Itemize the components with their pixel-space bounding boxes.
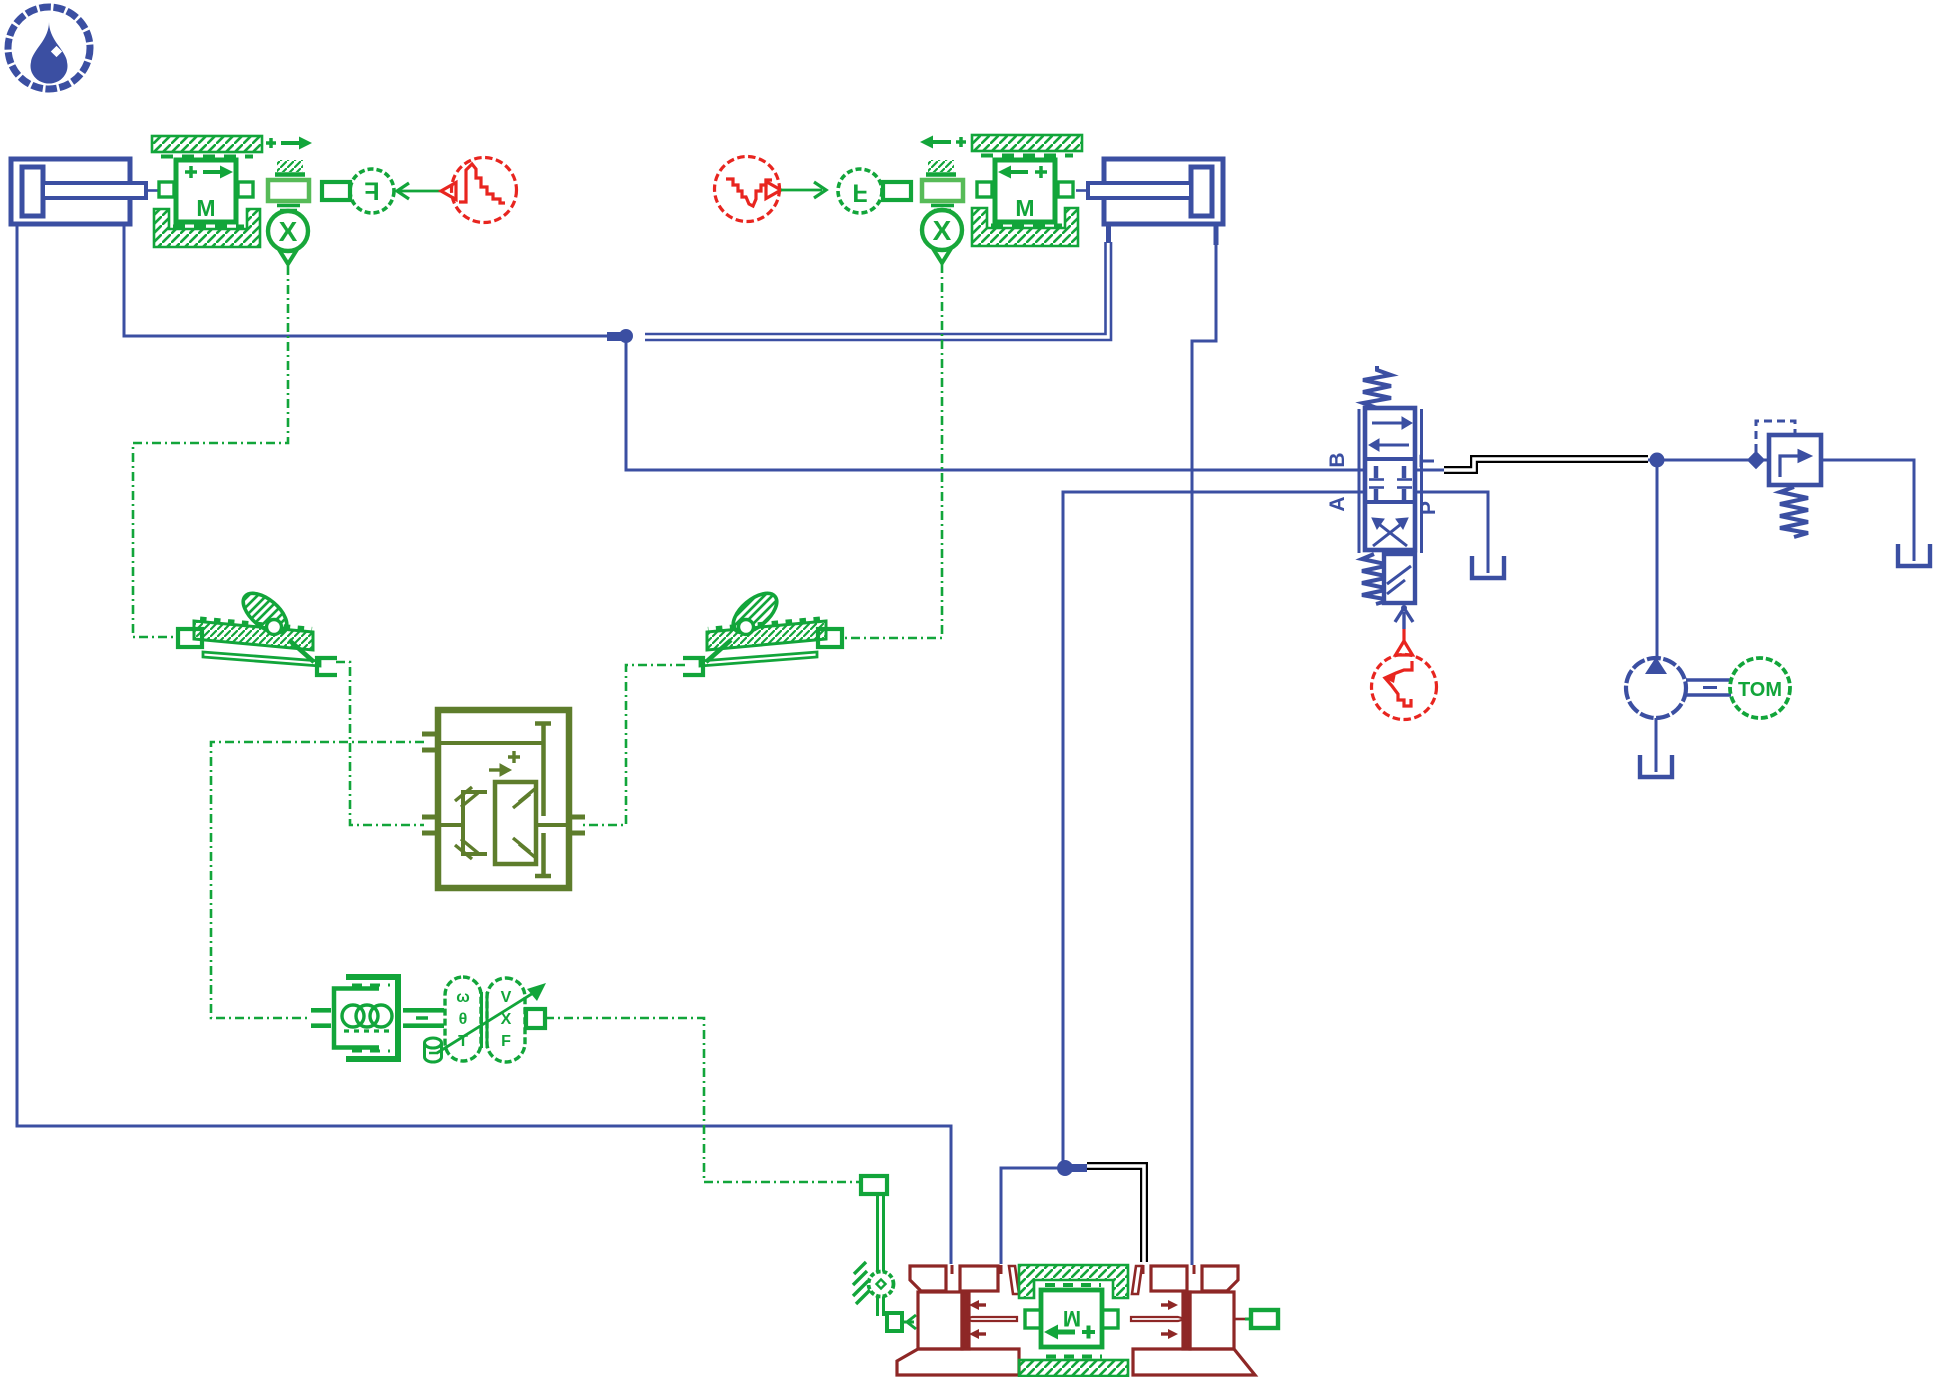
lower wall bbox=[154, 209, 260, 247]
bottom lever with pivot bbox=[853, 1176, 916, 1331]
left mass block M1 with walls bbox=[152, 136, 312, 247]
signal wire: right rack lever to gearbox right port bbox=[583, 665, 685, 825]
signal wire: gearbox upper-left port to rotary spring input bbox=[211, 742, 424, 1018]
wire: relief out to tank bbox=[1821, 460, 1914, 561]
right port box of bottom valve bbox=[1245, 1318, 1252, 1321]
wire: junction down to valve port B bbox=[626, 336, 1365, 470]
svg-text:F: F bbox=[852, 179, 867, 207]
upper wall bbox=[152, 136, 262, 152]
junction node bottom bbox=[1057, 1160, 1073, 1176]
side rails bbox=[1358, 409, 1361, 553]
command arrow up bbox=[1402, 612, 1405, 629]
right rack and pinion sensor linkage bbox=[683, 572, 848, 675]
svg-text:F: F bbox=[501, 1033, 511, 1050]
right force input F2 bbox=[838, 169, 882, 213]
signal wire: right X sensor to right rack input bbox=[845, 264, 942, 638]
svg-text:M: M bbox=[196, 195, 215, 221]
bottom position crossed arrows bbox=[1373, 521, 1405, 546]
svg-text:X: X bbox=[933, 215, 952, 246]
svg-text:T: T bbox=[458, 1033, 468, 1050]
top position arrows bbox=[1372, 422, 1404, 425]
bottom servo spool valve (jack control) bbox=[897, 1265, 1255, 1375]
wire: junction down to pump bbox=[1656, 460, 1659, 660]
signal wire: left rack lever to gearbox lower-left port bbox=[336, 662, 424, 825]
right mass block M2 with walls bbox=[920, 135, 1082, 246]
body bbox=[1365, 408, 1415, 550]
svg-text:T: T bbox=[1416, 454, 1439, 467]
junction node at x=626 bbox=[619, 329, 633, 343]
right shaft link bbox=[883, 182, 911, 200]
svg-text:X: X bbox=[279, 216, 298, 247]
wire: valve P to tank bbox=[1415, 492, 1488, 573]
signal wire: transformer output to bottom lever input bbox=[545, 1018, 860, 1182]
left viscous friction element bbox=[268, 160, 309, 211]
solenoid box bbox=[1384, 554, 1415, 603]
tank below pump bbox=[1640, 755, 1672, 777]
svg-text:M: M bbox=[1063, 1306, 1081, 1331]
bottom spring bbox=[1362, 554, 1390, 604]
green wall top of bottom valve bbox=[1019, 1265, 1128, 1298]
pilot tap diamond bbox=[1747, 451, 1765, 469]
mass block inside bottom valve bbox=[1025, 1290, 1118, 1347]
valve port labels bbox=[1326, 452, 1440, 515]
wire: left cylinder rod port to bottom valve port 1 (blue) bbox=[17, 226, 951, 1264]
servo valve U1 bbox=[1359, 366, 1422, 629]
velocity arrow <+ bbox=[956, 137, 966, 147]
wire: right cylinder left port stub bbox=[1106, 224, 1111, 243]
right viscous friction element bbox=[922, 160, 963, 211]
mass body bbox=[977, 182, 992, 197]
rotary spring bbox=[311, 977, 444, 1059]
svg-text:P: P bbox=[1417, 501, 1440, 515]
wire: junction to right cylinder left port (double line lower) bbox=[645, 242, 1111, 340]
right hydraulic cylinder bbox=[1076, 159, 1223, 224]
closed centre stubs bbox=[1376, 466, 1404, 500]
right displacement sensor X2 bbox=[922, 210, 962, 263]
wire: bottom junction left to bottom valve port 2 bbox=[1001, 1168, 1063, 1264]
valve command signal source (red) bbox=[1372, 629, 1437, 720]
lower wall bbox=[972, 208, 1078, 246]
wire: right cylinder right port to bottom valve port 4 bbox=[1214, 224, 1219, 245]
left displacement sensor X1 bbox=[268, 211, 308, 264]
svg-text:F: F bbox=[364, 178, 379, 206]
upper wall bbox=[972, 135, 1082, 151]
velocity arrow +> bbox=[266, 138, 276, 148]
rotary to linear modulated transformer bbox=[425, 977, 547, 1062]
svg-text:TOM: TOM bbox=[1738, 679, 1782, 701]
wire: pump junction to relief and tank line bbox=[1648, 459, 1769, 462]
svg-text:θ: θ bbox=[459, 1011, 468, 1028]
left shaft link bbox=[322, 182, 350, 200]
left force input F1 bbox=[350, 169, 394, 213]
mass body bbox=[159, 182, 174, 197]
hydraulic pump P1 bbox=[1626, 657, 1731, 772]
green wall bottom of bottom valve bbox=[1019, 1360, 1128, 1376]
differential gearbox bbox=[422, 710, 585, 888]
wire: junction to right cylinder left port (double line upper) bbox=[645, 242, 1106, 334]
arrow from source into F2 bbox=[781, 189, 822, 192]
svg-text:X: X bbox=[501, 1011, 512, 1028]
top spring bbox=[1363, 366, 1391, 408]
svg-text:A: A bbox=[1326, 496, 1349, 511]
arrow from source into F1 bbox=[397, 183, 409, 199]
svg-text:ω: ω bbox=[456, 989, 470, 1006]
wire: valve port A line down to bottom junction bbox=[1063, 492, 1365, 1168]
left rack and pinion sensor linkage bbox=[178, 572, 358, 675]
svg-text:M: M bbox=[1015, 195, 1034, 221]
svg-text:V: V bbox=[501, 989, 512, 1006]
wire: left cylinder head port to junction (blue) bbox=[124, 226, 620, 336]
relief valve V2 bbox=[1756, 421, 1821, 537]
left hydraulic cylinder bbox=[11, 159, 158, 224]
left signal source (red) bbox=[441, 158, 517, 223]
black signal pipe from valve port T to pump junction bbox=[1444, 459, 1648, 470]
tank at relief outlet bbox=[1898, 544, 1930, 566]
right signal source (red) bbox=[715, 157, 782, 222]
fluid properties icon bbox=[8, 7, 90, 89]
junction dot pump line bbox=[1650, 453, 1665, 468]
tank at valve P bbox=[1472, 556, 1504, 578]
wire: valve T short blue stub bbox=[1415, 469, 1444, 472]
black signal pipe from bottom junction to bottom valve port 3 bbox=[1087, 1166, 1144, 1262]
signal wire: left X sensor to left rack input bbox=[133, 266, 288, 637]
svg-text:B: B bbox=[1326, 452, 1349, 467]
prime mover TOM bbox=[1730, 658, 1790, 718]
